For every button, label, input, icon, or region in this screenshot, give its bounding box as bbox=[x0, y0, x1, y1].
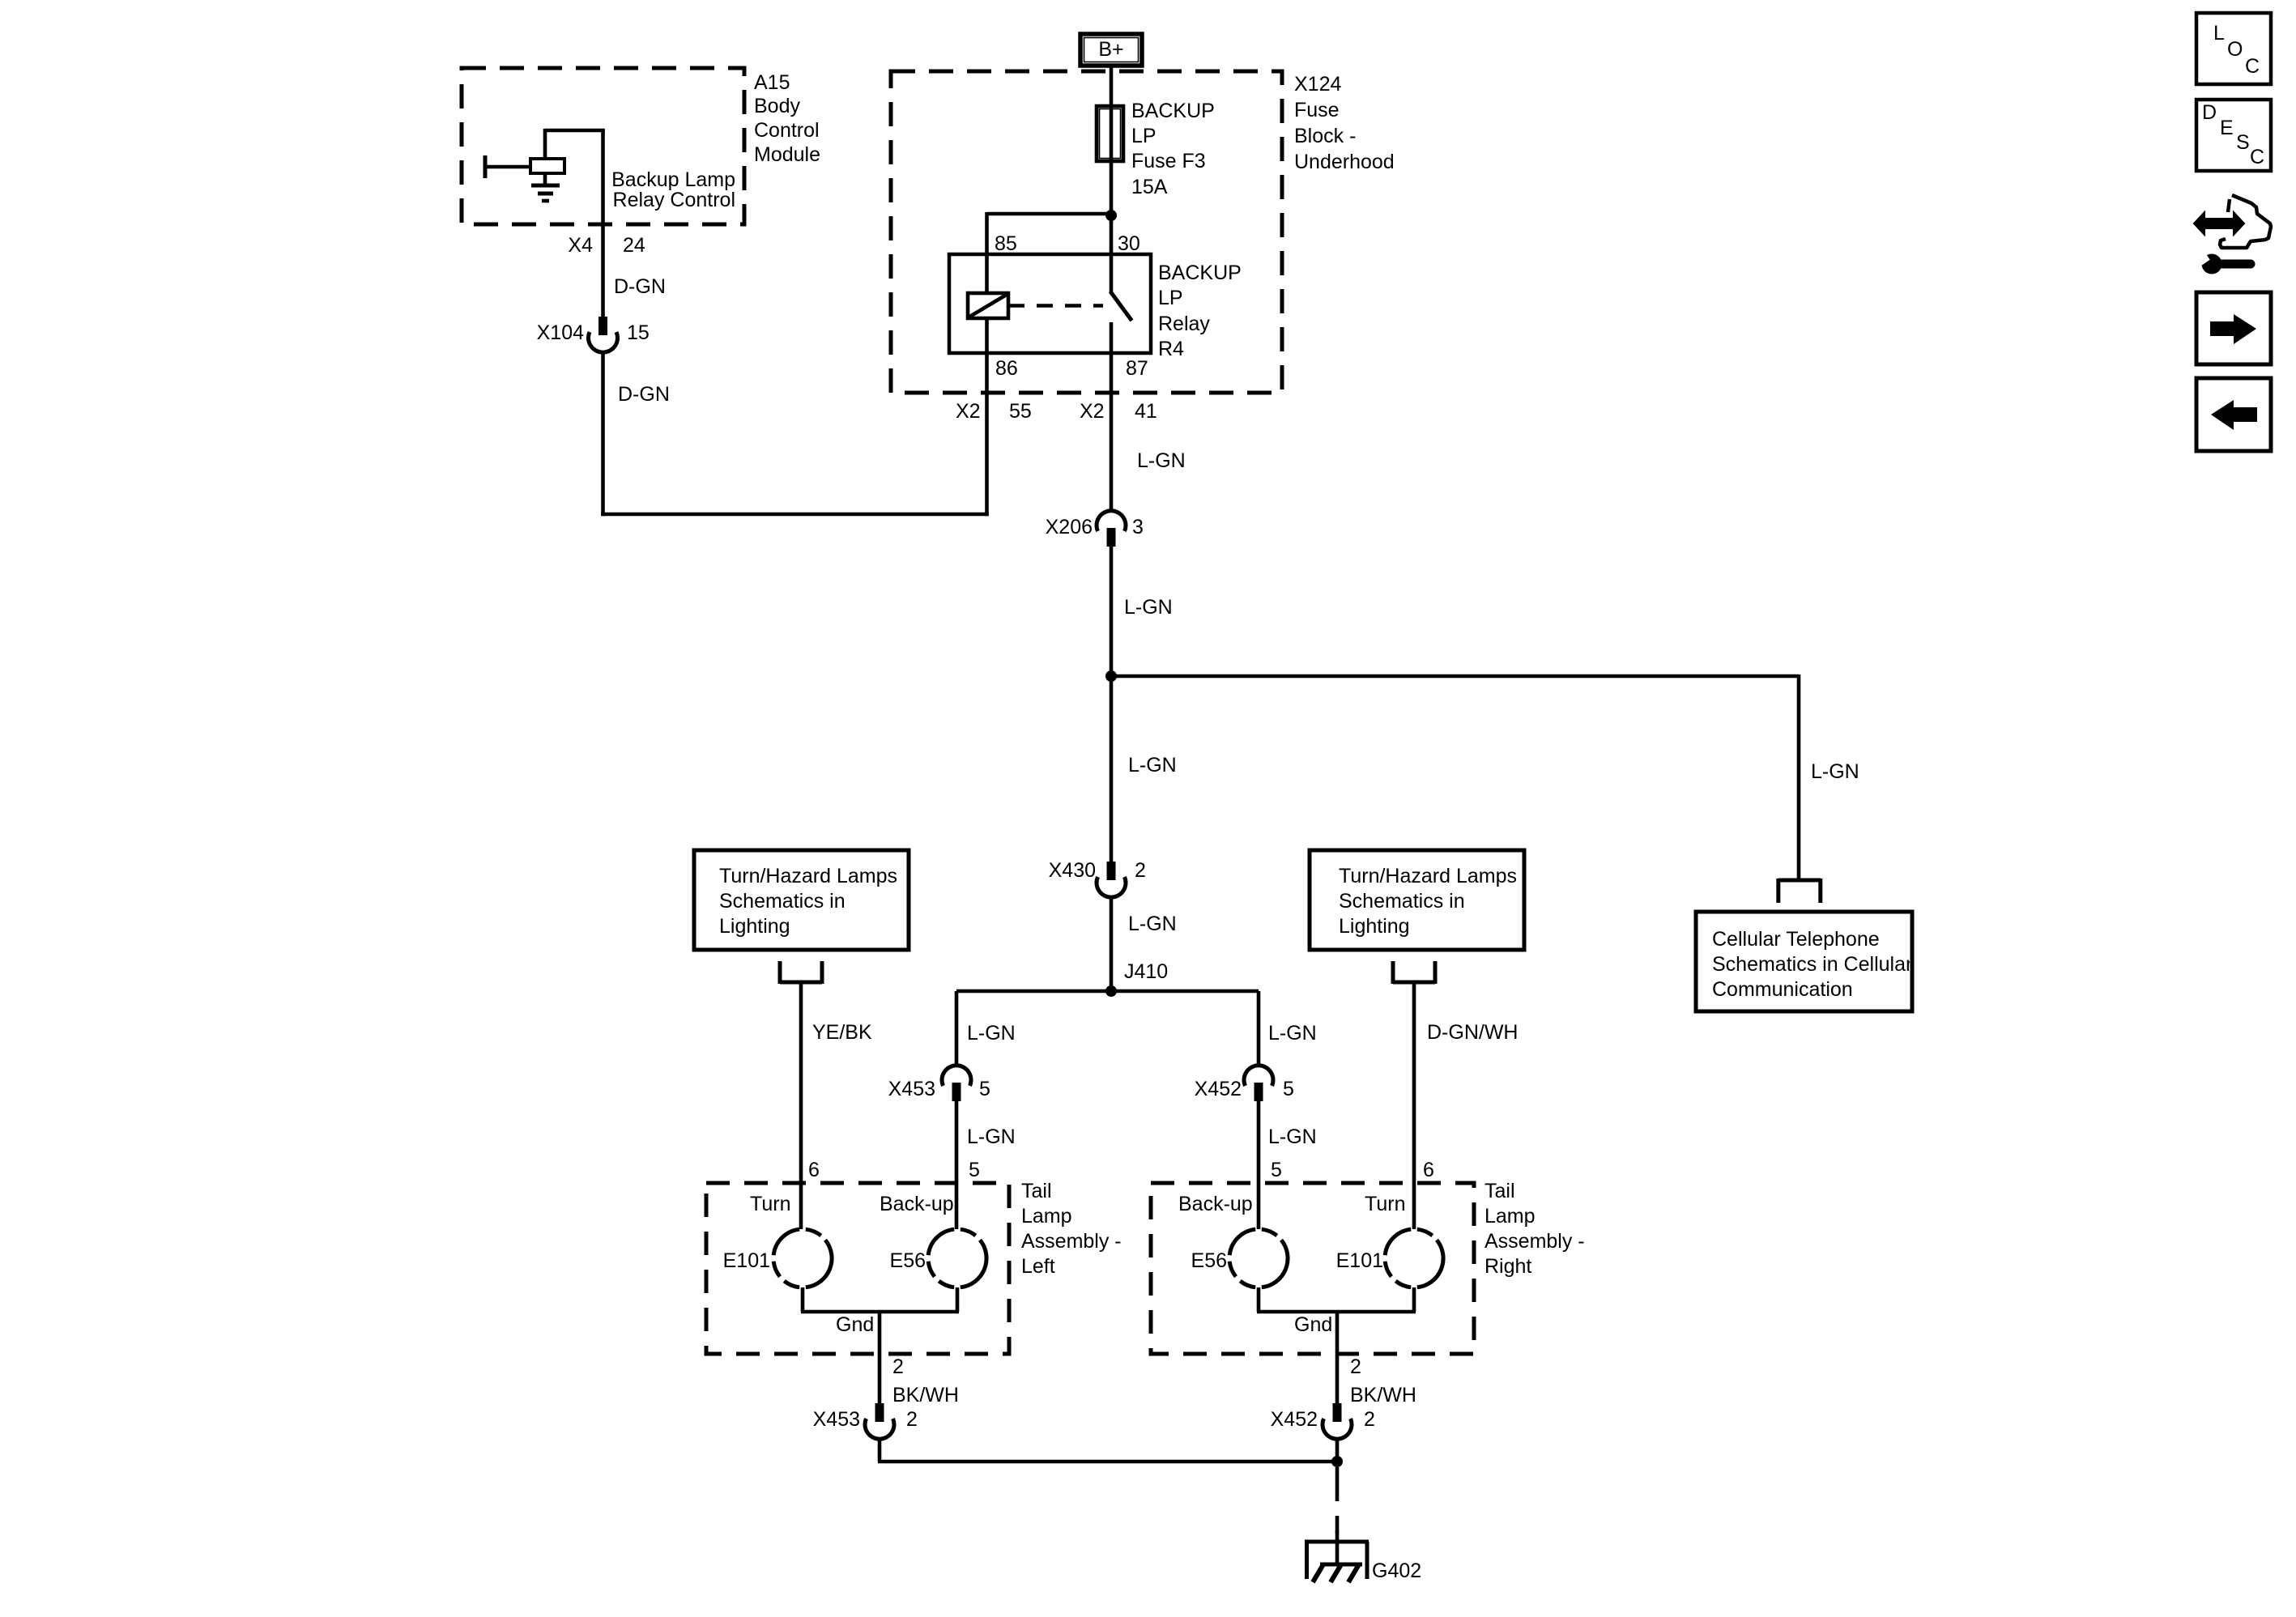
svg-text:Left: Left bbox=[1021, 1255, 1055, 1278]
svg-text:X453: X453 bbox=[813, 1408, 860, 1431]
connector X104 pin 15 bbox=[589, 317, 618, 352]
label X124 Fuse Block - Underhood bbox=[1294, 73, 1395, 173]
svg-text:X452: X452 bbox=[1195, 1078, 1242, 1100]
junction node to cellular branch bbox=[1105, 670, 1117, 682]
svg-text:2: 2 bbox=[906, 1408, 918, 1431]
svg-text:Relay: Relay bbox=[1158, 313, 1210, 335]
svg-text:85: 85 bbox=[995, 232, 1017, 255]
svg-text:Underhood: Underhood bbox=[1294, 151, 1395, 173]
svg-text:24: 24 bbox=[623, 234, 645, 257]
svg-text:BK/WH: BK/WH bbox=[1350, 1384, 1416, 1406]
svg-text:15A: 15A bbox=[1131, 176, 1168, 198]
connector X452 pin 5 bbox=[1244, 1066, 1273, 1101]
svg-text:L-GN: L-GN bbox=[1268, 1126, 1317, 1148]
off-page connector below left box bbox=[780, 981, 822, 985]
svg-text:5: 5 bbox=[1283, 1078, 1294, 1100]
svg-text:2: 2 bbox=[1364, 1408, 1375, 1431]
wire J410 horizontal bbox=[956, 989, 1259, 994]
ground link wires to G402 bbox=[878, 1438, 1337, 1462]
DESC nav button bbox=[2196, 100, 2271, 171]
labels E56 E101 bbox=[1191, 1249, 1383, 1272]
svg-text:J410: J410 bbox=[1124, 960, 1168, 983]
svg-text:Assembly -: Assembly - bbox=[1021, 1230, 1122, 1253]
svg-text:2: 2 bbox=[1350, 1355, 1361, 1378]
svg-text:LP: LP bbox=[1131, 125, 1157, 147]
wire relay 86 down through X2-55 bbox=[985, 353, 989, 516]
svg-text:A15: A15 bbox=[754, 71, 790, 94]
svg-text:Tail: Tail bbox=[1485, 1180, 1515, 1202]
svg-text:Turn: Turn bbox=[1365, 1193, 1405, 1215]
label BACKUP LP Fuse F3 15A bbox=[1131, 100, 1215, 198]
wire relay 87 down through X2-41 bbox=[1110, 353, 1114, 511]
svg-text:6: 6 bbox=[808, 1159, 820, 1181]
previous page arrow button bbox=[2196, 378, 2271, 451]
svg-text:Turn/Hazard Lamps: Turn/Hazard Lamps bbox=[719, 865, 897, 887]
svg-text:87: 87 bbox=[1126, 357, 1148, 380]
svg-text:C: C bbox=[2245, 55, 2260, 78]
LOC nav button bbox=[2196, 13, 2271, 84]
svg-text:X2: X2 bbox=[1080, 400, 1105, 423]
svg-text:Turn: Turn bbox=[750, 1193, 790, 1215]
wire X430 to J410 bbox=[1110, 896, 1114, 991]
svg-text:Right: Right bbox=[1485, 1255, 1531, 1278]
svg-text:Fuse F3: Fuse F3 bbox=[1131, 150, 1206, 172]
svg-text:X453: X453 bbox=[888, 1078, 935, 1100]
svg-text:L-GN: L-GN bbox=[1124, 596, 1173, 619]
svg-text:Lamp: Lamp bbox=[1021, 1205, 1072, 1228]
wire X453 to lamp bbox=[955, 1101, 959, 1229]
label Tail Lamp Assembly - Right bbox=[1485, 1180, 1585, 1278]
svg-text:YE/BK: YE/BK bbox=[812, 1021, 872, 1044]
svg-text:Module: Module bbox=[754, 143, 820, 166]
svg-text:Cellular Telephone: Cellular Telephone bbox=[1712, 928, 1880, 951]
svg-text:X104: X104 bbox=[537, 321, 584, 344]
svg-text:L-GN: L-GN bbox=[1811, 760, 1859, 783]
connector X206 pin 3 bbox=[1097, 511, 1126, 547]
connector labels X2 55 X2 41 bbox=[956, 400, 1157, 423]
ground inside BCM bbox=[531, 185, 560, 201]
svg-text:Gnd: Gnd bbox=[836, 1313, 874, 1336]
svg-text:L: L bbox=[2213, 22, 2225, 45]
svg-text:O: O bbox=[2227, 38, 2243, 61]
Tail Lamp Assembly Right dashed box bbox=[1151, 1183, 1474, 1354]
bulb E56 right backup bbox=[1229, 1229, 1288, 1287]
svg-text:L-GN: L-GN bbox=[1128, 754, 1177, 777]
svg-text:Tail: Tail bbox=[1021, 1180, 1052, 1202]
Turn/Hazard Lamps box (right) bbox=[1310, 850, 1524, 950]
off-page connector to cellular box bbox=[1778, 879, 1821, 903]
svg-text:X452: X452 bbox=[1271, 1408, 1318, 1431]
labels X206 3 bbox=[1046, 516, 1144, 538]
svg-text:2: 2 bbox=[892, 1355, 904, 1378]
svg-text:BACKUP: BACKUP bbox=[1131, 100, 1215, 122]
junction node at ground drop bbox=[1331, 1456, 1343, 1467]
svg-text:X4: X4 bbox=[568, 234, 593, 257]
lamp function labels left box bbox=[750, 1193, 954, 1215]
pin labels 86 87 bbox=[995, 357, 1148, 380]
Cellular Telephone Schematics box bbox=[1696, 912, 1912, 1011]
svg-text:D-GN: D-GN bbox=[614, 275, 666, 298]
svg-text:41: 41 bbox=[1135, 400, 1157, 423]
dashed wire to G402 bbox=[1335, 1467, 1340, 1533]
svg-text:30: 30 bbox=[1118, 232, 1140, 255]
svg-text:E101: E101 bbox=[723, 1249, 770, 1272]
svg-text:Lighting: Lighting bbox=[1339, 915, 1410, 938]
connector X430 pin 2 bbox=[1097, 862, 1126, 897]
relay switch contact bbox=[1110, 254, 1132, 353]
svg-text:L-GN: L-GN bbox=[1128, 913, 1177, 935]
svg-text:Backup Lamp: Backup Lamp bbox=[611, 168, 735, 191]
wire right turn lamp bbox=[1412, 982, 1416, 1229]
wire left backup branch bbox=[955, 991, 959, 1066]
svg-text:Lighting: Lighting bbox=[719, 915, 790, 938]
svg-text:55: 55 bbox=[1009, 400, 1032, 423]
label BACKUP LP Relay R4 bbox=[1158, 262, 1242, 360]
svg-text:G402: G402 bbox=[1372, 1560, 1421, 1582]
X124 Fuse Block dashed box bbox=[891, 71, 1282, 393]
svg-text:L-GN: L-GN bbox=[1137, 449, 1186, 472]
svg-text:5: 5 bbox=[969, 1159, 980, 1181]
coil-contact dashed link bbox=[1008, 304, 1103, 308]
svg-text:Gnd: Gnd bbox=[1294, 1313, 1332, 1336]
bulb E56 left backup bbox=[928, 1229, 986, 1287]
svg-text:Assembly -: Assembly - bbox=[1485, 1230, 1585, 1253]
svg-text:3: 3 bbox=[1132, 516, 1144, 538]
B+ terminal box bbox=[1080, 34, 1142, 66]
svg-text:Fuse: Fuse bbox=[1294, 99, 1340, 121]
svg-text:L-GN: L-GN bbox=[967, 1126, 1016, 1148]
svg-text:Body: Body bbox=[754, 95, 800, 117]
right lamp ground bus bbox=[1257, 1287, 1416, 1404]
fuse BACKUP LP Fuse F3 15A bbox=[1097, 106, 1123, 161]
svg-text:B+: B+ bbox=[1098, 38, 1123, 61]
wire junction to relay pin 85 bbox=[987, 212, 1112, 254]
wire left turn lamp bbox=[799, 982, 803, 1229]
wire BCM pin X4-24 down to X104 bbox=[601, 130, 605, 317]
svg-text:D-GN: D-GN bbox=[618, 383, 670, 406]
labels X104 15 bbox=[537, 321, 650, 344]
svg-text:Schematics in Cellular: Schematics in Cellular bbox=[1712, 953, 1912, 976]
label Backup Lamp Relay Control bbox=[611, 168, 735, 211]
Tail Lamp Assembly Left dashed box bbox=[706, 1183, 1009, 1354]
svg-text:S: S bbox=[2236, 131, 2250, 154]
pin labels 85 30 bbox=[995, 232, 1140, 255]
svg-text:Lamp: Lamp bbox=[1485, 1205, 1536, 1228]
svg-text:LP: LP bbox=[1158, 287, 1183, 309]
svg-text:Schematics in: Schematics in bbox=[719, 890, 846, 913]
svg-text:X124: X124 bbox=[1294, 73, 1341, 96]
labels X430 2 bbox=[1049, 859, 1146, 882]
splice J410 node bbox=[1105, 985, 1117, 997]
svg-text:Back-up: Back-up bbox=[880, 1193, 954, 1215]
svg-text:Back-up: Back-up bbox=[1178, 1193, 1253, 1215]
svg-text:2: 2 bbox=[1135, 859, 1146, 882]
hand with double arrow icon bbox=[2194, 195, 2271, 248]
svg-text:X206: X206 bbox=[1046, 516, 1093, 538]
wrench icon bbox=[2196, 251, 2251, 274]
A15 Body Control Module dashed box bbox=[462, 68, 744, 224]
svg-text:86: 86 bbox=[995, 357, 1018, 380]
bulb E101 right turn bbox=[1385, 1229, 1443, 1287]
svg-text:D: D bbox=[2202, 101, 2217, 124]
wire X104 down and right to relay coil return bbox=[601, 351, 989, 516]
svg-text:Control: Control bbox=[754, 119, 820, 142]
connector X452 pin 2 bbox=[1323, 1403, 1352, 1439]
lamp function labels right box bbox=[1178, 1193, 1405, 1215]
ground G402 symbol bbox=[1305, 1542, 1369, 1582]
svg-text:E: E bbox=[2220, 117, 2234, 139]
pin labels X4 24 bbox=[568, 234, 645, 257]
svg-text:E56: E56 bbox=[1191, 1249, 1227, 1272]
svg-text:BACKUP: BACKUP bbox=[1158, 262, 1242, 284]
wire B+ to fuse bbox=[1110, 66, 1114, 108]
connector X453 pin 2 bbox=[865, 1403, 894, 1439]
label Tail Lamp Assembly - Left bbox=[1021, 1180, 1122, 1278]
svg-text:X430: X430 bbox=[1049, 859, 1096, 882]
left lamp ground bus bbox=[801, 1287, 959, 1404]
svg-text:D-GN/WH: D-GN/WH bbox=[1427, 1021, 1518, 1044]
svg-text:R4: R4 bbox=[1158, 338, 1184, 360]
svg-text:E56: E56 bbox=[890, 1249, 926, 1272]
svg-text:5: 5 bbox=[1271, 1159, 1282, 1181]
svg-text:15: 15 bbox=[627, 321, 650, 344]
next page arrow button bbox=[2196, 292, 2271, 364]
wire X206 down to junction bbox=[1110, 547, 1114, 862]
off-page connector below right box bbox=[1393, 981, 1435, 985]
bulb E101 left turn bbox=[773, 1229, 832, 1287]
svg-text:X2: X2 bbox=[956, 400, 981, 423]
svg-text:Turn/Hazard Lamps: Turn/Hazard Lamps bbox=[1339, 865, 1517, 887]
wire right backup branch bbox=[1257, 991, 1261, 1066]
connector X453 pin 5 bbox=[942, 1066, 971, 1101]
BCM driver output transistor symbol bbox=[483, 129, 605, 185]
svg-text:Communication: Communication bbox=[1712, 978, 1853, 1001]
svg-text:Block -: Block - bbox=[1294, 125, 1356, 147]
svg-text:Schematics in: Schematics in bbox=[1339, 890, 1465, 913]
svg-text:E101: E101 bbox=[1336, 1249, 1383, 1272]
relay coil bbox=[968, 254, 1008, 353]
labels E101 E56 bbox=[723, 1249, 926, 1272]
svg-text:C: C bbox=[2250, 146, 2264, 168]
svg-text:6: 6 bbox=[1423, 1159, 1434, 1181]
svg-text:BK/WH: BK/WH bbox=[892, 1384, 959, 1406]
svg-text:L-GN: L-GN bbox=[1268, 1022, 1317, 1045]
relay BACKUP LP Relay R4 box bbox=[949, 254, 1151, 353]
wire branch to cellular telephone bbox=[1111, 674, 1799, 880]
svg-text:5: 5 bbox=[979, 1078, 990, 1100]
svg-text:L-GN: L-GN bbox=[967, 1022, 1016, 1045]
wire X452 to lamp bbox=[1257, 1101, 1261, 1229]
junction node above relay bbox=[1105, 210, 1117, 221]
wire fuse to relay pin 30 bbox=[1110, 160, 1114, 254]
svg-text:Relay Control: Relay Control bbox=[613, 189, 735, 211]
Turn/Hazard Lamps box (left) bbox=[694, 850, 909, 950]
label A15 Body Control Module bbox=[754, 71, 820, 166]
